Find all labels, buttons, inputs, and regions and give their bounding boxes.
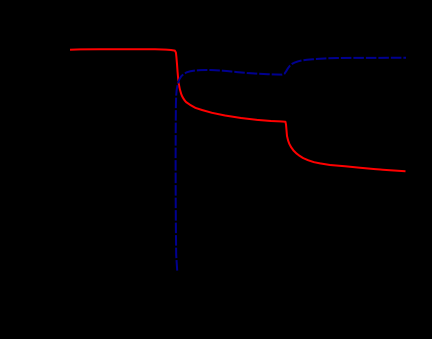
blue curve (dashed concentration trace): [176, 58, 406, 271]
red curve (solid concentration trace): [70, 49, 406, 171]
